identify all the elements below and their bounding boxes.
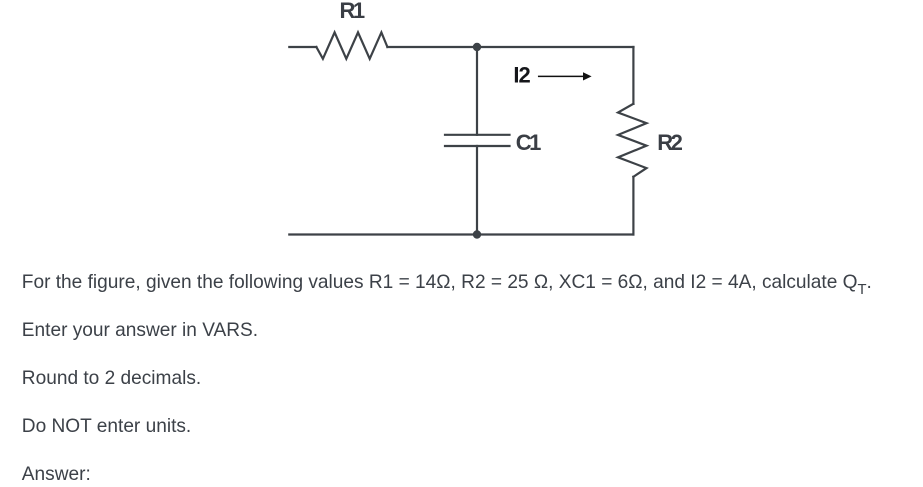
wire: right branch upper segment [632,47,634,104]
capacitor C1 top plate [445,134,510,136]
svg-text:R1: R1 [340,0,365,23]
circuit schematic [0,0,923,262]
wire: left input stub [289,46,316,48]
instruction: rounding [22,369,201,388]
wire: right branch lower segment [632,177,634,235]
instruction: no units [22,417,191,436]
instruction: units [22,321,258,340]
svg-text:I2: I2 [513,63,530,88]
resistor R1 [316,32,387,58]
capacitor C1 bottom plate [445,145,510,147]
wire: bottom horizontal [289,233,633,235]
wire: capacitor branch upper segment [476,47,478,135]
node: top junction [473,43,481,51]
arrow: I2 current direction [539,75,584,77]
question line 1 [22,273,872,292]
wire: top horizontal from R1 to right corner [387,46,633,48]
wire: capacitor branch lower segment [476,146,478,235]
resistor R2 [618,104,647,177]
svg-text:C1: C1 [516,130,541,155]
svg-text:R2: R2 [657,130,682,155]
answer prompt [22,465,91,484]
node: bottom junction [473,230,481,238]
